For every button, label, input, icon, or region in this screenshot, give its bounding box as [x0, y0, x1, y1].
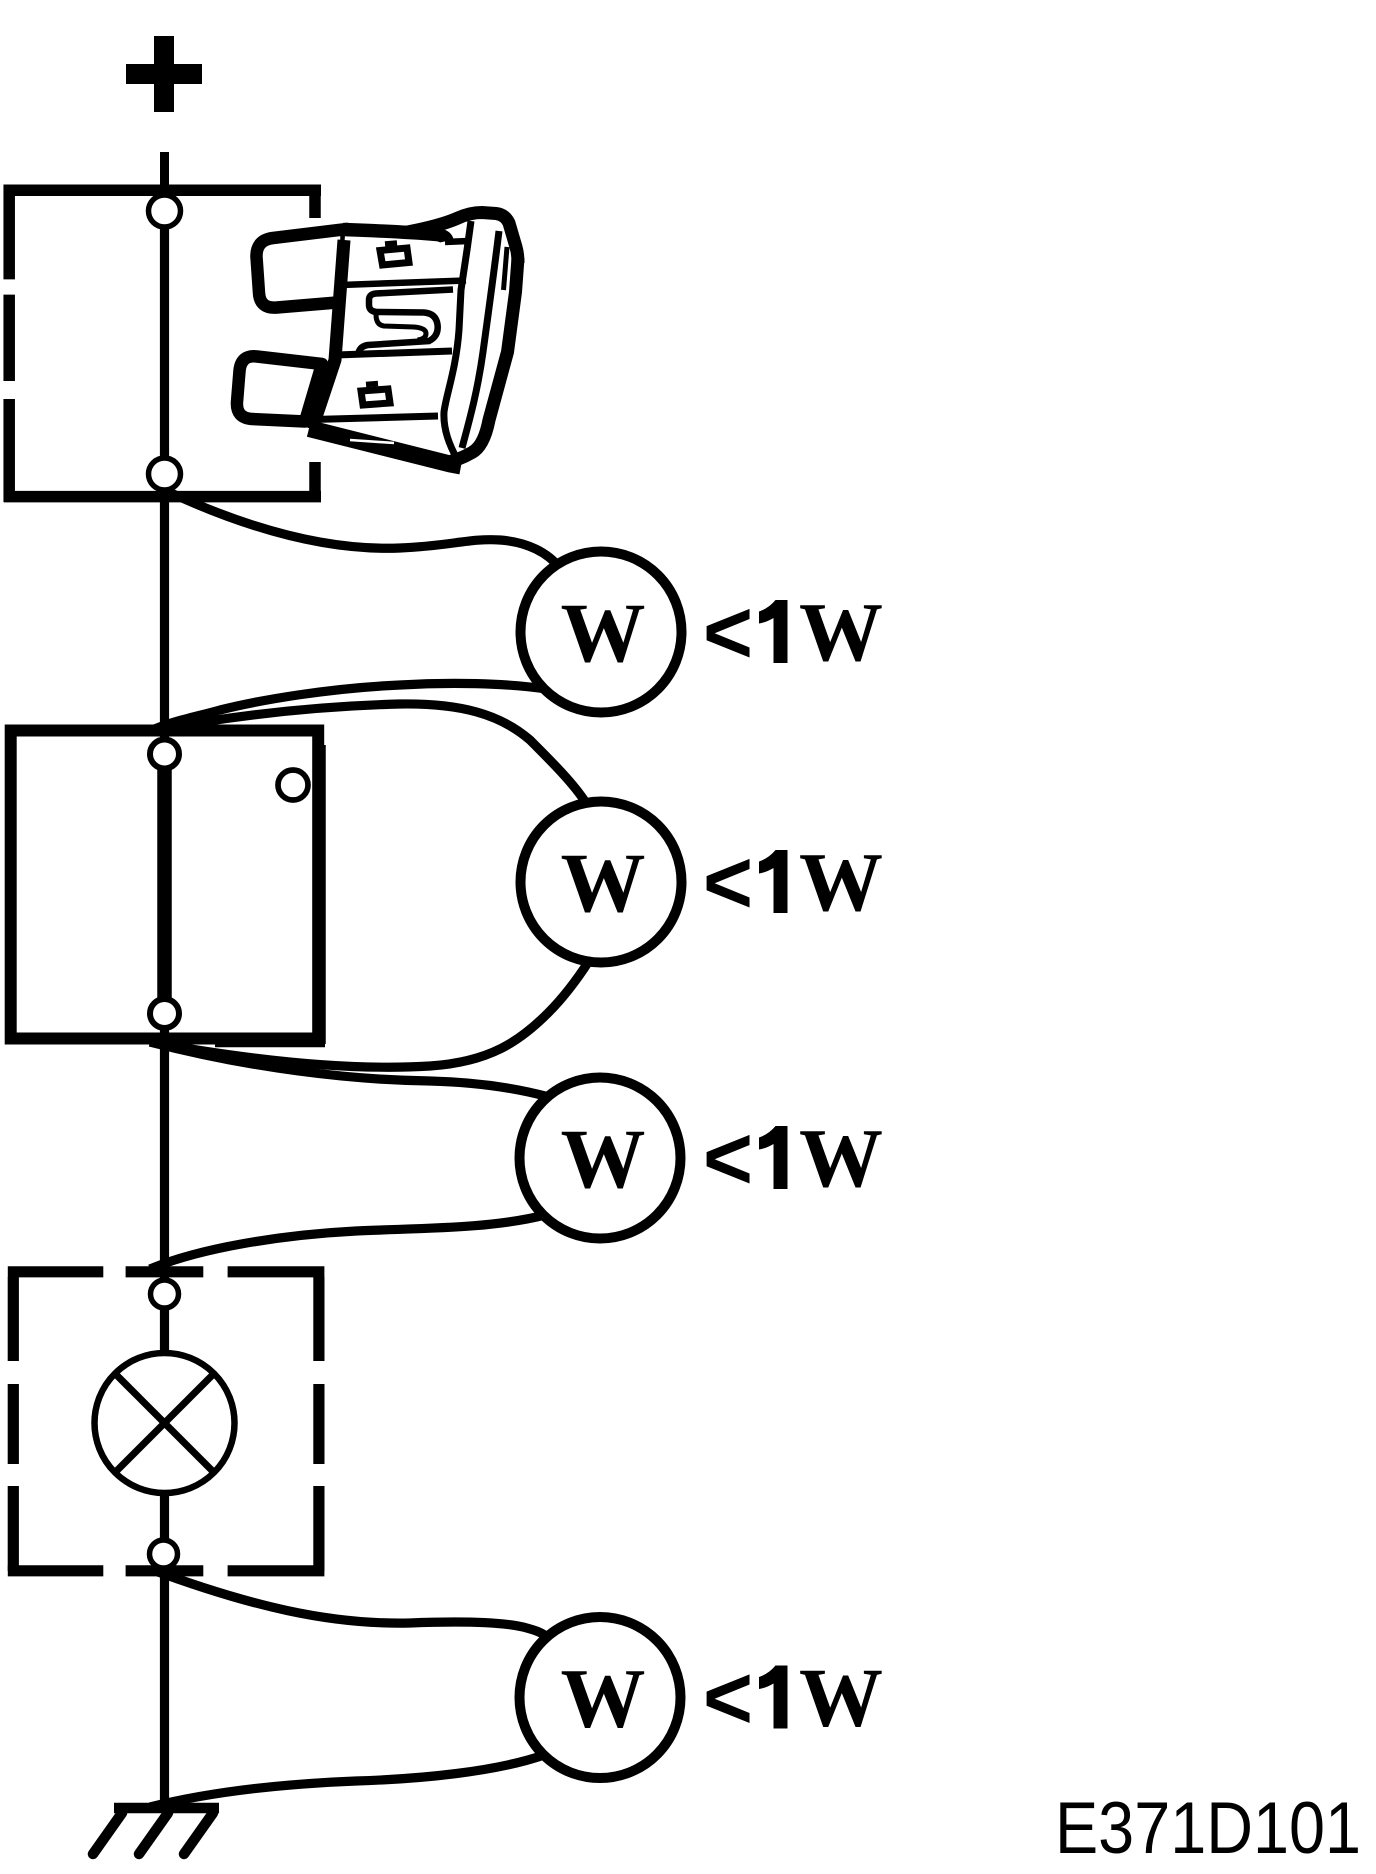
wire main vertical bus — [160, 196, 169, 1808]
pin lamp top terminal — [151, 1280, 179, 1308]
fuse body right edge — [446, 258, 518, 463]
wire switch top node to W2 top — [150, 704, 586, 803]
lamp box dashed enclosure — [8, 1272, 325, 1571]
wire W2 bottom to switch bottom node — [150, 961, 589, 1067]
svg-text:W: W — [799, 1652, 883, 1745]
wire fuse-bottom to W1 top — [165, 490, 561, 568]
fuse divider lower — [336, 351, 452, 355]
wattmeter W3 — [520, 1078, 681, 1239]
switch box double-draw offset edge — [215, 745, 325, 1046]
switch box enclosure — [11, 731, 319, 1039]
pin lamp bottom terminal — [150, 1540, 178, 1568]
ground symbol — [93, 1808, 219, 1854]
value label <1W for W3 — [703, 1109, 883, 1209]
wattmeter W1 — [521, 552, 682, 713]
fuse body rear top edge and corner — [405, 213, 518, 264]
wire switch bottom node to W3 top — [150, 1042, 549, 1097]
wire W4 bottom to ground node — [150, 1755, 544, 1807]
fuse box dashed enclosure — [4, 185, 321, 503]
fuse body left edge — [311, 240, 344, 429]
fuse body bottom edge band — [309, 429, 461, 467]
svg-text:E371D101: E371D101 — [1055, 1788, 1361, 1869]
fuse front-right edge — [444, 221, 471, 459]
wire lamp bottom node to W4 top — [150, 1569, 548, 1638]
svg-text:<: < — [703, 1649, 753, 1749]
fuse divider bottom zone — [313, 416, 438, 420]
wattmeter W2 — [521, 802, 682, 963]
fuse upper blade prong — [256, 229, 347, 308]
svg-text:W: W — [561, 836, 646, 930]
fuse notch bottom bar — [445, 241, 468, 242]
svg-text:W: W — [799, 1112, 883, 1205]
fuse element inner wall — [376, 315, 426, 341]
svg-text:<: < — [703, 833, 753, 933]
fuse body bottom edge white sliver — [350, 440, 394, 443]
lamp L1 (circle with cross) — [95, 1353, 235, 1493]
wattmeter W4 — [520, 1617, 681, 1778]
value label <1W for W1 — [703, 583, 883, 683]
svg-text:W: W — [561, 1112, 646, 1206]
fuse right face mold line — [462, 231, 499, 448]
fuse divider upper — [341, 281, 466, 286]
switch contact bar — [157, 752, 172, 1016]
pin switch auxiliary contact — [278, 770, 308, 800]
fuse pictorial (automotive blade fuse) — [237, 210, 532, 466]
svg-text:W: W — [561, 1652, 646, 1746]
pin fuse box top terminal — [149, 195, 181, 227]
wire stub from + into fuse box — [160, 152, 169, 200]
fuse right face highlight — [504, 247, 508, 290]
wire W3 bottom to lamp top node — [150, 1215, 545, 1269]
fuse window upper tick — [385, 243, 397, 244]
svg-text:<: < — [703, 1109, 753, 1209]
fuse window upper — [380, 248, 409, 265]
pin switch top terminal — [150, 740, 179, 769]
fuse right face bottom detail — [466, 428, 488, 452]
fuse window lower tick — [366, 384, 378, 385]
fuse element outer wall — [359, 290, 454, 353]
pin fuse box bottom terminal — [149, 458, 181, 490]
value label <1W for W4 — [703, 1649, 883, 1749]
svg-text:W: W — [799, 836, 883, 929]
svg-text:<: < — [703, 583, 753, 683]
fuse body interior fill — [313, 210, 519, 459]
svg-text:W: W — [799, 586, 883, 679]
battery positive terminal symbol + — [126, 36, 202, 112]
fuse lower blade prong — [237, 356, 322, 421]
svg-text:W: W — [561, 586, 646, 680]
fuse body front top edge — [343, 230, 447, 242]
fuse white backdrop halo — [250, 218, 532, 462]
wire W1 bottom to switch top node — [150, 683, 546, 731]
value label <1W for W2 — [703, 833, 883, 933]
pin switch bottom terminal — [150, 999, 179, 1028]
fuse window lower — [361, 389, 390, 405]
